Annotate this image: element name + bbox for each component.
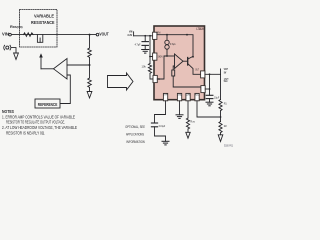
svg-text:4.7µF: 4.7µF: [135, 43, 141, 47]
svg-text:10k: 10k: [142, 65, 147, 69]
ground: [186, 132, 190, 138]
wire amp output to control arrow: [41, 68, 54, 70]
svg-text:ADJ: ADJ: [195, 92, 200, 96]
svg-text:3020 F01: 3020 F01: [224, 144, 233, 148]
wire tap to amp: [67, 64, 90, 66]
junction input cap: [144, 35, 146, 37]
IC body LT3020: [154, 26, 205, 100]
dashed box VARIABLE RESISTANCE: [20, 10, 58, 48]
svg-text:VARIABLE: VARIABLE: [34, 14, 54, 19]
svg-text:RDS(ON): RDS(ON): [10, 24, 23, 29]
wire BYP pin down: [155, 101, 166, 123]
svg-text:GND: GND: [177, 92, 183, 96]
bottom pin ADJ: [195, 93, 199, 100]
op-amp error amplifier (points left): [54, 59, 68, 80]
ground: [162, 141, 169, 145]
resistor R upper divider: [88, 48, 92, 57]
svg-text:3.3V: 3.3V: [127, 33, 132, 37]
wire current source to amp plus input: [166, 55, 168, 57]
junction shdn branch: [149, 35, 151, 37]
svg-text:VIN: VIN: [2, 31, 9, 36]
svg-text:50mA: 50mA: [224, 79, 228, 83]
svg-text:5V: 5V: [224, 71, 227, 75]
resistor R1 output divider: [220, 74, 222, 99]
ground: [14, 53, 19, 60]
notes text: [2, 109, 77, 136]
svg-text:RESISTANCE: RESISTANCE: [31, 20, 55, 25]
wire amp minus input to reference: [60, 75, 70, 104]
svg-text:APPLICATIONS: APPLICATIONS: [126, 133, 145, 137]
svg-text:INFORMATION: INFORMATION: [126, 140, 145, 144]
junction feedback tap: [89, 64, 91, 66]
svg-text:RESISTOR TO REGULATE OUTPUT VO: RESISTOR TO REGULATE OUTPUT VOLTAGE.: [6, 120, 65, 125]
current source: [166, 35, 168, 41]
wire ADJ pin to divider tap: [197, 101, 221, 117]
junction divider top: [89, 34, 91, 36]
svg-text:SHDN: SHDN: [158, 55, 163, 59]
op-amp internal (points right): [175, 54, 184, 69]
svg-text:0.5µA: 0.5µA: [170, 42, 176, 46]
svg-text:0.01µF: 0.01µF: [159, 124, 166, 128]
svg-text:NOTES: NOTES: [2, 109, 14, 114]
pin SENSE: [201, 86, 205, 93]
block arrow between circuits: [108, 73, 134, 90]
wire VIN to IN pin: [134, 35, 153, 37]
pin SHDN: [153, 53, 157, 60]
resistor RLIM: [186, 118, 189, 129]
svg-text:REFERENCE: REFERENCE: [38, 102, 58, 107]
pin IN: [153, 32, 157, 39]
ground: [87, 92, 92, 99]
capacitor bypass 0.01uF: [151, 122, 157, 124]
wire VIN to VOUT main rail: [12, 34, 97, 36]
pin BYP left: [153, 75, 157, 82]
svg-text:VOUT: VOUT: [99, 32, 109, 37]
wire GND pin down: [179, 101, 181, 115]
junction ADJ tap: [220, 116, 222, 118]
wire minus input feedback: [173, 66, 174, 70]
wire to SHDN: [150, 36, 153, 57]
svg-text:RESISTOR IS NEARLY 0Ω.: RESISTOR IS NEARLY 0Ω.: [6, 131, 45, 136]
svg-text:ILIM: ILIM: [186, 92, 191, 96]
capacitor CIN 4.7uF: [144, 36, 146, 42]
ground: [206, 102, 213, 106]
svg-text:R1: R1: [224, 101, 227, 105]
svg-text:10µF: 10µF: [214, 95, 219, 99]
node GND terminal: [4, 45, 16, 53]
capacitor COUT 10uF: [209, 74, 211, 95]
wire plus node to BYP pin: [157, 56, 167, 79]
svg-text:R2: R2: [224, 124, 227, 128]
reference box: [35, 99, 60, 108]
ground: [218, 135, 223, 142]
svg-text:LT3020: LT3020: [197, 27, 204, 31]
node VIN right circuit: [127, 30, 132, 38]
node VIN terminal: [2, 31, 11, 36]
wire SENSE to output cap branch: [205, 88, 209, 90]
svg-text:1. ERROR AMP CONTROLS VALUE OF: 1. ERROR AMP CONTROLS VALUE OF VARIABLE: [2, 114, 75, 119]
wire ILIM pin down: [187, 101, 189, 118]
transistor pass device: [183, 60, 188, 62]
wire OUT to output node: [205, 73, 221, 75]
ground: [142, 50, 149, 54]
resistor R lower divider: [88, 78, 92, 87]
resistor 10k to BYP pin: [149, 56, 151, 58]
resistor internal feedback: [172, 70, 175, 76]
node VOUT right: [220, 69, 222, 74]
wire divider: [89, 35, 91, 48]
svg-text:OUT: OUT: [195, 68, 199, 72]
ground: [176, 115, 183, 119]
transistor variable-resistance element: [37, 35, 42, 43]
control arrow into box: [40, 57, 42, 69]
svg-text:OPTIONAL, SEE: OPTIONAL, SEE: [125, 125, 145, 129]
internal top rail: [157, 35, 193, 57]
resistor RDS(ON): [24, 33, 34, 37]
label OPTIONAL: [125, 125, 145, 144]
node VOUT terminal: [96, 32, 109, 37]
resistor R2 output divider: [219, 122, 222, 133]
svg-text:BYP: BYP: [163, 92, 168, 96]
svg-text:IN: IN: [157, 31, 160, 35]
pin OUT: [201, 71, 205, 78]
bottom pin ILIM: [186, 93, 190, 100]
svg-text:2. AT LOW HEADROOM VOLTAGE, TH: 2. AT LOW HEADROOM VOLTAGE, THE VARIABLE: [2, 125, 77, 130]
bottom pin BYP: [163, 93, 167, 100]
bottom pin GND: [177, 93, 181, 100]
